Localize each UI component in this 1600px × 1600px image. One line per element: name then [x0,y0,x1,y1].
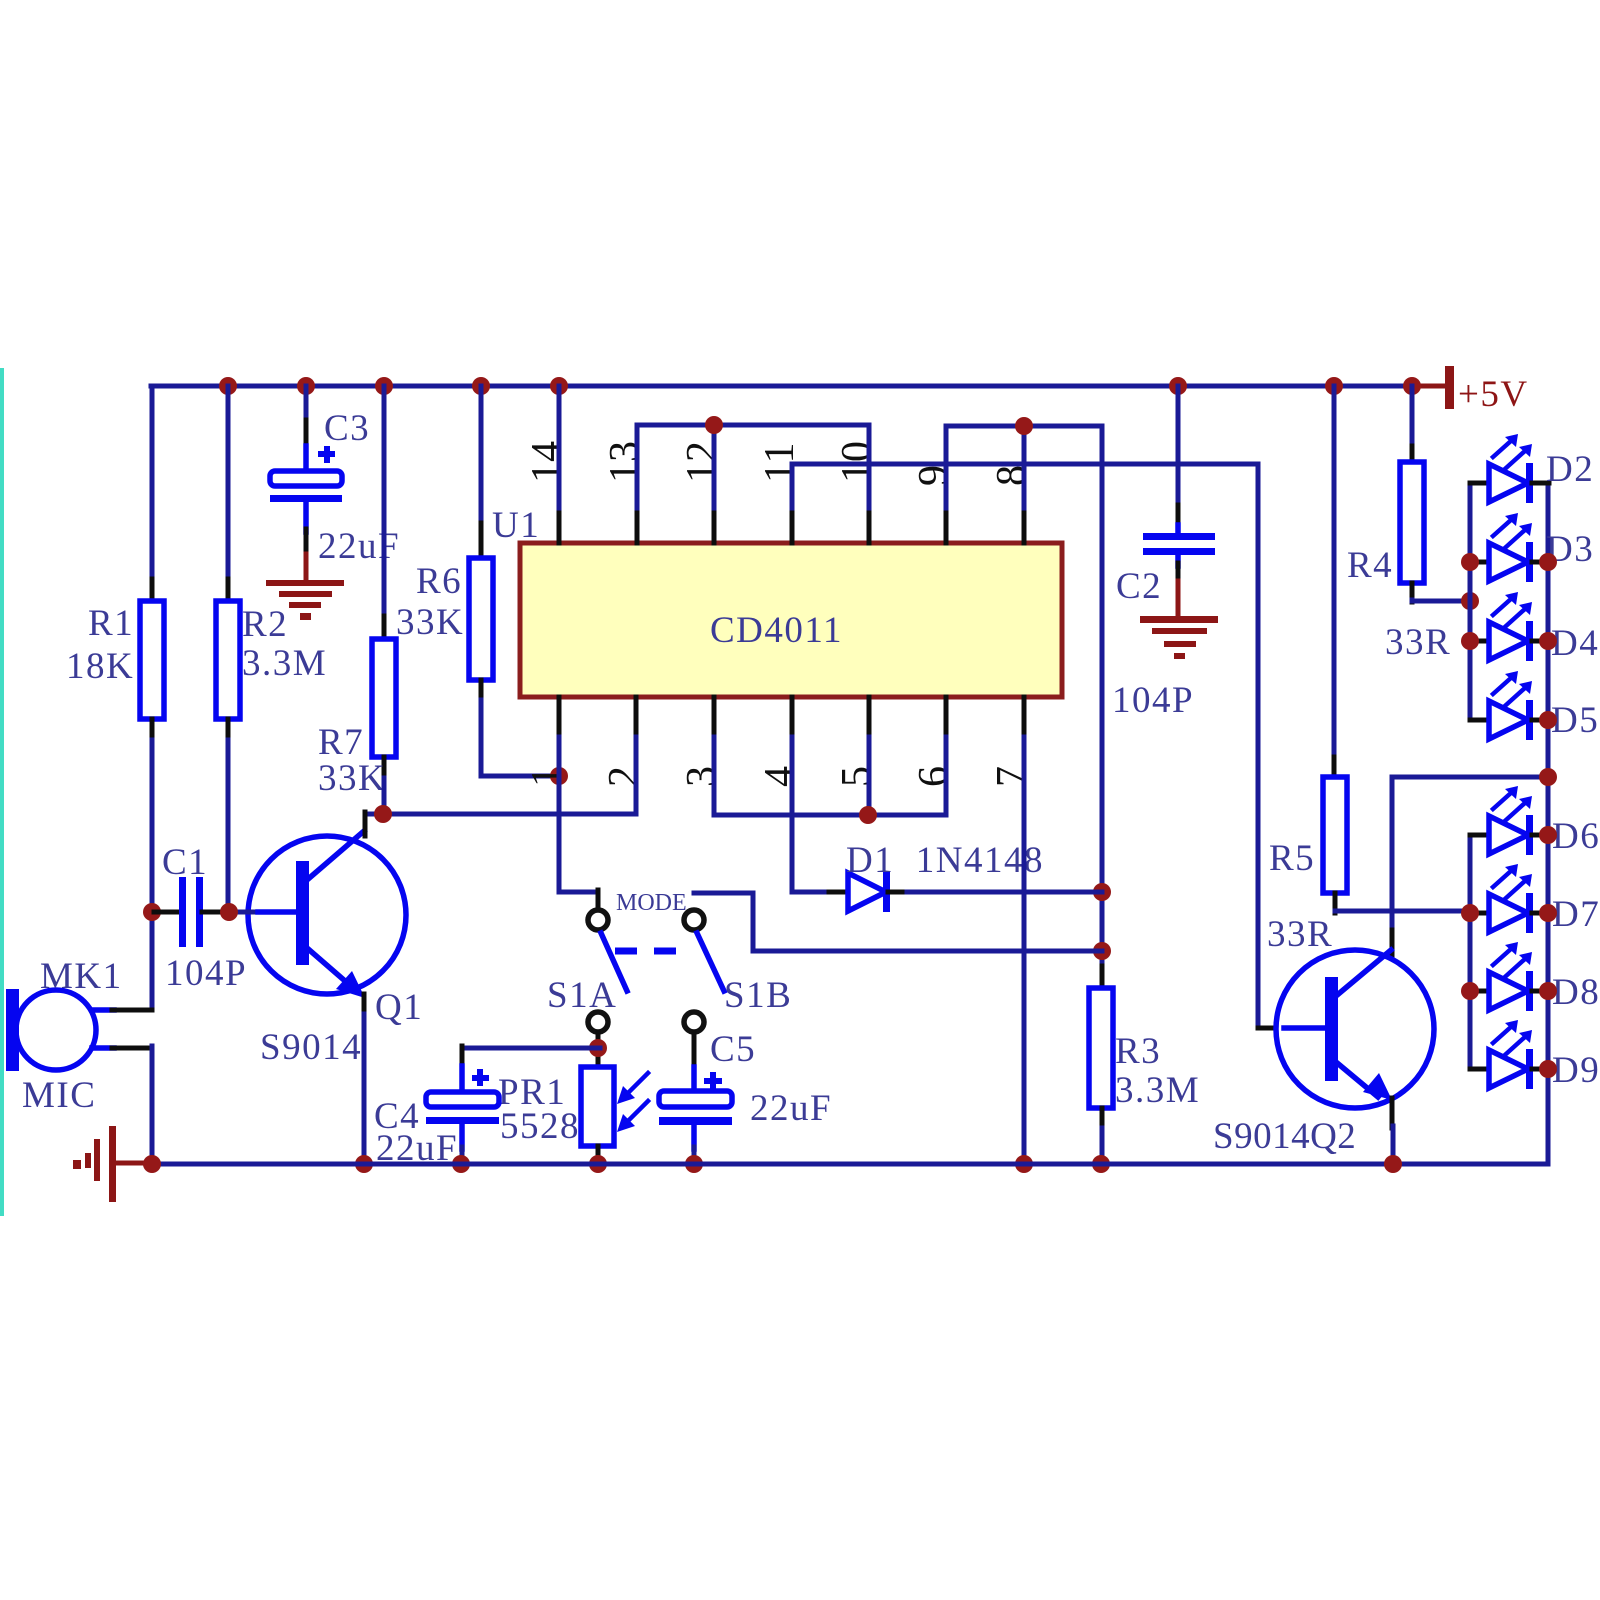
svg-text:14: 14 [524,441,570,483]
wire net pins 3-5-6 [714,737,946,815]
wire rail to R4 [1410,386,1415,463]
wire net pins 13-12-10 [637,425,869,508]
wire collector net pin2/R7/Q1 [365,737,636,814]
junction collector / cathode rail [1539,768,1557,786]
svg-text:13: 13 [602,441,648,483]
wire R5 to D7 anode rail [1335,909,1470,914]
junction R3 / ground [1092,1155,1110,1173]
svg-text:CD4011: CD4011 [710,610,843,651]
wire R3 to ground rail [1100,1128,1105,1164]
wire LED group 2 anode rail [1468,835,1473,1069]
wire pin 4 to D1 anode [792,737,831,892]
wire +5V top rail [151,384,1414,389]
svg-text:2: 2 [601,766,647,787]
svg-text:1: 1 [524,766,570,787]
pin 6 [911,697,957,787]
pin 7 [989,697,1035,787]
junction S1B node [1093,942,1111,960]
svg-text:D2: D2 [1546,449,1594,490]
junction top rail x=384 [375,377,393,395]
pin 5 [834,697,880,787]
svg-text:U1: U1 [492,505,540,546]
LED D4 [1470,592,1599,664]
capacitor C4 22uF [374,1046,600,1169]
junction D7 anode [1461,904,1479,922]
resistor R4 33R [1347,462,1451,663]
wire mic to ground rail [150,1046,155,1164]
junction Q1 base node dot [220,903,238,921]
pin 2 [601,697,647,787]
switch S1B [684,910,792,1032]
capacitor C5 22uF [659,1029,832,1164]
junction top rail x=559 [550,377,568,395]
wire D1 cathode to R3 node [907,890,1102,895]
wire C3 to ground [304,529,309,582]
svg-text:33K: 33K [396,602,464,643]
capacitor C1 104P [154,842,247,994]
junction top rail x=306 [297,377,315,395]
svg-text:D6: D6 [1552,816,1600,857]
photoresistor PR1 5528 [498,1067,648,1164]
svg-text:22uF: 22uF [750,1088,832,1129]
junction R7/collector [374,805,392,823]
junction Q1 emitter / ground rail [355,1155,373,1173]
junction D6 cathode [1539,826,1557,844]
transistor Q2 S9014 [1213,950,1434,1157]
svg-text:+5V: +5V [1458,374,1529,415]
junction C4 / ground rail [452,1155,470,1173]
wire Q1 emitter to ground rail [362,1014,367,1164]
wire C2 to ground [1176,563,1181,618]
LED D6 [1470,786,1600,857]
microphone MK1 [6,956,152,1116]
junction pin 12 [705,416,723,434]
wire rail to R2 [226,386,231,583]
wire rail to C3 [304,386,309,473]
svg-text:18K: 18K [66,646,134,687]
LED D8 [1470,942,1600,1013]
svg-text:MK1: MK1 [40,956,123,997]
svg-text:R5: R5 [1269,838,1315,879]
svg-text:9: 9 [911,465,957,486]
svg-text:R4: R4 [1347,545,1393,586]
wire LED cathode right rail [1546,483,1551,1164]
svg-text:MIC: MIC [22,1075,96,1116]
pin 13 [602,441,648,543]
junction D1 cathode node [1093,883,1111,901]
wire R1 to mic node [150,740,155,1010]
diode D1 1N4148 [829,840,1044,912]
svg-text:3.3M: 3.3M [1115,1070,1200,1111]
svg-text:R3: R3 [1115,1031,1161,1072]
svg-text:D4: D4 [1551,623,1599,664]
junction D3 cathode [1539,553,1557,571]
svg-text:3.3M: 3.3M [242,643,327,684]
svg-text:4: 4 [757,766,803,787]
svg-text:5528: 5528 [500,1106,580,1147]
svg-text:Q1: Q1 [375,987,423,1028]
svg-text:D1 1N4148: D1 1N4148 [846,840,1044,881]
ground left of rail [73,1126,154,1202]
svg-text:3: 3 [679,766,725,787]
svg-text:22uF: 22uF [318,526,400,567]
resistor R1 18K [66,579,164,742]
LED D5 [1470,671,1599,741]
svg-text:S1A: S1A [547,975,617,1016]
svg-text:33R: 33R [1385,622,1451,663]
svg-text:D7: D7 [1552,894,1600,935]
junction D7 cathode [1539,904,1557,922]
junction pin 5 [859,806,877,824]
svg-text:7: 7 [989,766,1035,787]
wire Q2 emitter to ground rail [1391,1126,1396,1164]
pin 1 [524,697,570,787]
ground below C2 [1140,616,1218,659]
svg-text:D5: D5 [1551,700,1599,741]
junction pin 8 [1015,417,1033,435]
wire Q2 collector to cathode rail [1392,777,1548,956]
wire rail to R7 [382,386,387,640]
junction D9 cathode [1539,1060,1557,1078]
junction D8 anode [1461,982,1479,1000]
svg-text:33K: 33K [318,758,386,799]
svg-text:8: 8 [989,465,1035,486]
pin 12 [679,441,725,543]
wire rail to R6 [479,386,484,559]
junction pin1/R6 [550,767,568,785]
switch gang dashed link [615,948,679,955]
svg-text:S9014: S9014 [260,1027,362,1068]
wire net pin 11 to Q2 base [792,464,1286,1028]
junction D8 cathode [1539,982,1557,1000]
svg-text:R1: R1 [88,603,134,644]
junction mic signal node [143,903,161,921]
junction D4 cathode [1539,632,1557,650]
svg-text:104P: 104P [1112,680,1194,721]
wire pin 14 to rail [557,386,562,508]
LED D3 [1470,513,1594,582]
capacitor C2 104P [1112,533,1215,721]
svg-text:R2: R2 [242,604,288,645]
junction top rail x=228 [219,377,237,395]
pin 10 [834,441,880,543]
svg-text:R7: R7 [318,722,364,763]
wire R2 to Q1 base node [226,740,231,912]
wire R7 to collector node [382,778,387,814]
junction top rail x=1178 [1169,377,1187,395]
pin 9 [911,465,957,543]
svg-text:C2: C2 [1116,566,1162,607]
junction top rail x=1334 [1325,377,1343,395]
svg-text:33R: 33R [1267,914,1333,955]
svg-text:104P: 104P [165,953,247,994]
wire rail to R5 [1332,386,1337,778]
op-amp U1 CD4011 IC body [492,505,1062,697]
wire S1B to R3 node [694,893,1102,951]
transistor Q1 S9014 [231,812,423,1068]
capacitor C3 22uF [270,408,400,567]
pin 14 [524,441,570,543]
resistor R3 3.3M [1089,966,1200,1130]
svg-text:S9014Q2: S9014Q2 [1213,1116,1356,1157]
junction D5 cathode [1539,711,1557,729]
LED D2 [1470,434,1594,503]
wire S1A to PR1 [596,1032,601,1068]
pin 3 [679,697,725,787]
junction top rail x=481 [472,377,490,395]
LED D9 [1470,1020,1600,1091]
junction D3 anode [1461,553,1479,571]
wire pin 7 to ground rail [1022,737,1027,1164]
LED D7 [1470,864,1600,935]
wire net pins 9-8 down to R3 [946,426,1102,968]
junction top rail x=1412 [1403,377,1421,395]
power +5V symbol [1410,366,1529,415]
junction R4 / anode rail [1461,592,1479,610]
junction mic ground / rail [143,1155,161,1173]
resistor R5 33R [1267,777,1347,955]
junction D4 anode [1461,632,1479,650]
junction Q2 emitter / ground rail [1384,1155,1402,1173]
ground below C3 [266,580,344,620]
svg-text:6: 6 [911,766,957,787]
svg-text:R6: R6 [416,561,462,602]
svg-text:C1: C1 [162,842,208,883]
switch S1A [547,910,627,1032]
resistor R2 3.3M [216,579,327,742]
pin 4 [757,697,803,787]
wire pin 1 to switch S1A [559,737,598,910]
wire R6 to pin 1 [481,700,557,776]
wire rail to C2 [1176,386,1181,536]
svg-text:5: 5 [834,766,880,787]
svg-text:12: 12 [679,441,725,483]
svg-text:MODE: MODE [616,890,687,916]
svg-text:C5: C5 [710,1029,756,1070]
svg-text:C3: C3 [324,408,370,449]
junction pin 7 / ground [1015,1155,1033,1173]
resistor R6 33K [396,558,493,702]
svg-text:D9: D9 [1552,1050,1600,1091]
svg-text:S1B: S1B [724,975,792,1016]
wire left branch rail to R1 [150,386,155,583]
left page edge line [0,368,4,1216]
junction C4/S1A/PR1 [589,1039,607,1057]
resistor R7 33K [318,639,396,799]
wire ground bottom rail [152,1162,1548,1167]
wire LED group 1 anode rail [1468,483,1473,720]
pin 11 [757,443,803,543]
junction C5 / ground rail [685,1155,703,1173]
svg-text:D8: D8 [1552,972,1600,1013]
wire R4 to LED anode rail [1412,600,1470,601]
pin 8 [989,465,1035,543]
junction PR1 / ground rail [589,1155,607,1173]
